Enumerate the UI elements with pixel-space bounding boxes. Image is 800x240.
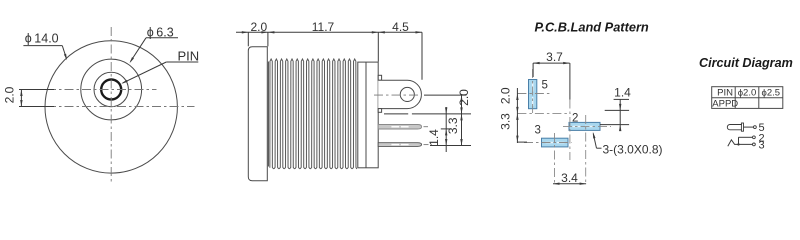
svg-text:3.4: 3.4 <box>561 171 578 185</box>
side view lower terminal pin <box>378 143 421 147</box>
schematic switch junction <box>738 137 740 144</box>
pattern dim 3.7 <box>533 62 570 64</box>
side view tab centerline <box>374 94 422 96</box>
svg-text:PIN: PIN <box>717 88 733 99</box>
svg-text:3: 3 <box>535 125 541 137</box>
top dim line <box>236 31 422 33</box>
front view body horizontal centerline <box>47 106 195 108</box>
svg-text:3: 3 <box>759 140 765 152</box>
side view threaded barrel <box>270 59 357 169</box>
top dim arrows <box>242 31 249 33</box>
svg-text:2.0: 2.0 <box>457 89 471 106</box>
svg-text:2: 2 <box>572 112 578 124</box>
side view solder tab with hole <box>378 80 421 108</box>
side dim line 2.0/3.3 <box>461 95 463 145</box>
side view flange <box>248 47 267 181</box>
svg-text:ϕ 14.0: ϕ 14.0 <box>25 32 59 46</box>
pin spec table <box>712 87 783 109</box>
svg-text:4.5: 4.5 <box>392 20 409 34</box>
side view lower lug <box>378 109 381 113</box>
svg-text:3.7: 3.7 <box>546 50 563 64</box>
dim 2.0 front dim line <box>20 90 22 107</box>
pad 3 <box>542 138 569 147</box>
front view vertical centerline <box>110 27 112 185</box>
front view opening circle <box>94 72 128 106</box>
svg-text:3.3: 3.3 <box>499 113 513 130</box>
svg-text:ϕ2.5: ϕ2.5 <box>762 88 781 99</box>
svg-text:ϕ2.0: ϕ2.0 <box>738 88 757 99</box>
pattern dim 3.4 <box>553 183 586 185</box>
front view center pin ring <box>101 80 121 100</box>
front view body circle φ14.0 <box>45 41 177 173</box>
side view body block <box>358 62 378 168</box>
svg-text:PIN: PIN <box>178 49 200 64</box>
pin tip centerline stubs <box>424 126 429 128</box>
svg-text:1.4: 1.4 <box>427 129 441 146</box>
dim 2.0 front ext lines <box>19 89 54 91</box>
schematic pin 3 terminal <box>753 143 756 146</box>
pad 5 <box>529 80 537 109</box>
svg-text:1.4: 1.4 <box>614 86 631 100</box>
svg-text:3.3: 3.3 <box>446 117 460 134</box>
pad 2 <box>569 122 600 130</box>
pattern left dim line <box>516 88 518 143</box>
svg-text:APPD: APPD <box>712 98 738 109</box>
svg-text:3-(3.0X0.8): 3-(3.0X0.8) <box>603 143 663 157</box>
schematic pin 2 wire and terminal <box>739 136 753 138</box>
svg-text:11.7: 11.7 <box>312 20 335 34</box>
front view pin horizontal centerline <box>47 89 157 91</box>
svg-text:5: 5 <box>542 80 548 92</box>
svg-text:2.0: 2.0 <box>499 87 513 104</box>
top dim ext lines <box>247 32 249 46</box>
pad construction centerlines <box>532 69 534 116</box>
side dim line 1.4 <box>445 107 447 152</box>
side view upper lug <box>378 75 381 80</box>
schematic plug symbol <box>727 124 742 129</box>
schematic pin 5 wire and terminal <box>744 126 754 128</box>
svg-text:Circuit Diagram: Circuit Diagram <box>699 56 793 70</box>
svg-text:2.0: 2.0 <box>250 20 267 34</box>
schematic pin 3 spring contact <box>728 140 753 147</box>
side view upper terminal pin <box>378 125 421 130</box>
svg-text:P.C.B.Land Pattern: P.C.B.Land Pattern <box>535 20 649 35</box>
side right ext lines <box>424 94 466 96</box>
svg-text:2.0: 2.0 <box>3 86 17 103</box>
front view collar circle φ6.3 <box>81 59 142 120</box>
